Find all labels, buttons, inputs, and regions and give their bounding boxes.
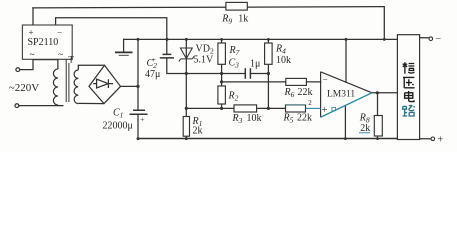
svg-text:22000μ: 22000μ	[103, 120, 133, 131]
svg-text:5.1V: 5.1V	[194, 55, 215, 66]
svg-text:10k: 10k	[276, 55, 291, 66]
svg-text:R3: R3	[232, 113, 243, 125]
svg-text:1μ: 1μ	[250, 59, 260, 70]
svg-text:1k: 1k	[238, 14, 248, 25]
svg-text:~: ~	[58, 50, 63, 60]
svg-text:+: +	[322, 105, 328, 116]
svg-text:C3: C3	[229, 58, 240, 70]
svg-text:−: −	[57, 28, 62, 38]
svg-text:2: 2	[308, 99, 312, 107]
svg-text:R9: R9	[221, 14, 232, 26]
svg-text:10k: 10k	[247, 113, 262, 124]
svg-text:R4: R4	[275, 44, 286, 56]
svg-text:+: +	[152, 55, 156, 64]
svg-text:−: −	[323, 74, 328, 84]
svg-text:R5: R5	[283, 113, 294, 125]
svg-text:R6: R6	[284, 87, 295, 99]
svg-text:+: +	[140, 114, 144, 123]
svg-text:LM311: LM311	[327, 89, 355, 99]
svg-text:22k: 22k	[298, 87, 313, 98]
svg-text:~220V: ~220V	[9, 82, 39, 94]
svg-text:~: ~	[30, 50, 35, 60]
svg-text:+: +	[438, 135, 444, 146]
svg-text:2k: 2k	[193, 126, 203, 137]
svg-text:22k: 22k	[297, 113, 312, 124]
svg-text:−: −	[436, 34, 442, 45]
svg-text:+: +	[29, 28, 34, 38]
svg-text:R2: R2	[228, 91, 239, 103]
svg-text:47μ: 47μ	[145, 69, 160, 80]
svg-text:SP2110: SP2110	[28, 37, 59, 48]
svg-text:C1: C1	[113, 108, 123, 120]
svg-text:T: T	[68, 55, 74, 65]
svg-text:R7: R7	[229, 45, 240, 57]
